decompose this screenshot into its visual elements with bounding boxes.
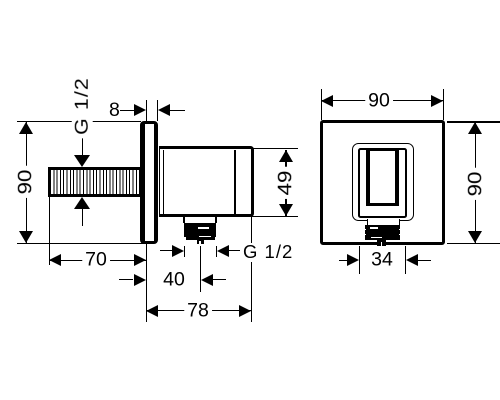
ext line body bottom right	[252, 216, 298, 217]
outlet tip	[197, 240, 204, 244]
dim G 1/2 bottom: left tail	[160, 250, 172, 251]
dim 78: label	[184, 300, 212, 322]
ext line flange top	[17, 121, 141, 122]
thread gleam dash 2	[199, 236, 211, 237]
body inner line 1	[163, 150, 164, 214]
ext line pin left	[49, 196, 50, 265]
thread notch left 2	[365, 234, 366, 236]
dim 90 left: line	[26, 122, 27, 243]
dim 49: line	[285, 150, 286, 216]
thread gleam dash 2 (front)	[371, 237, 382, 238]
elbow body outline	[159, 146, 255, 217]
knurled holder pin	[48, 167, 141, 197]
dim 8: ext line right	[157, 100, 158, 122]
dim 40: left arrow	[134, 274, 146, 286]
dim 90 right: ext line bottom	[447, 243, 500, 244]
dim 90 top: arrow left	[321, 95, 333, 107]
ext line wall plane	[146, 244, 147, 322]
dim 90 top: ext line right	[443, 89, 444, 120]
dim 34: label	[368, 250, 396, 272]
outlet cone	[186, 237, 215, 240]
thread notch left 1	[365, 229, 366, 231]
dim 90 left: bottom arrow	[19, 231, 33, 243]
dim 8: tail left	[120, 110, 134, 111]
dim 90 left: top arrow	[19, 122, 33, 134]
dim 8: arrow right	[134, 104, 146, 116]
outlet thread block	[184, 223, 215, 237]
dim 90 right: line	[475, 122, 476, 243]
dim G 1/2 bottom: left arrow	[172, 245, 184, 257]
pin bottom arrow (up)	[74, 197, 90, 209]
outlet tip slit	[199, 241, 202, 245]
wall plate	[320, 120, 446, 245]
body inner line 2	[234, 150, 236, 214]
G 1/2 top leader line	[82, 133, 83, 155]
ext line flange bottom	[17, 243, 146, 244]
dim G 1/2 bottom: right arrow	[217, 245, 229, 257]
G 1/2 top label (rotated)	[72, 74, 93, 139]
ext line body top right	[252, 148, 298, 149]
dim 90 top: arrow right	[431, 95, 443, 107]
dim 49: arrow down	[279, 204, 293, 216]
dim 70: arrow right	[134, 254, 146, 266]
thread gleam dash 1 (front)	[370, 227, 378, 228]
dim 34: right arrow	[406, 254, 418, 266]
dim G 1/2 bottom: right tail	[229, 250, 240, 251]
dim 34: ext line right	[405, 246, 406, 274]
pin bottom arrow tail	[82, 209, 83, 226]
dim 90 top: line	[322, 100, 444, 101]
dim 34: left tail	[339, 260, 347, 261]
dim 90 top: ext line left	[321, 89, 322, 120]
dim 34: left arrow	[347, 254, 359, 266]
G 1/2 top leader arrow	[74, 155, 90, 167]
holder outer contour	[352, 143, 414, 221]
outlet collar	[183, 217, 216, 223]
outlet thread (front)	[365, 225, 401, 240]
dim 90 left: label	[15, 166, 37, 198]
dim 70: label	[82, 249, 110, 271]
wall flange	[140, 121, 158, 244]
thread notch right 2	[399, 234, 400, 236]
dim 78: line	[146, 310, 251, 311]
holder bracket (U-frame)	[366, 148, 399, 206]
dim 40: left arrow tail	[119, 279, 134, 280]
ext line outlet right	[216, 246, 217, 258]
thread notch right 1	[399, 229, 400, 231]
outlet tip slit (front)	[381, 242, 382, 247]
dim 8: ext line left	[146, 100, 147, 122]
holder inner rim	[358, 148, 407, 219]
ext line body right	[251, 216, 252, 322]
ext line outlet left	[184, 246, 185, 258]
dim 90 top: label	[365, 90, 393, 112]
dim 8: tail right	[170, 110, 185, 111]
dim 8: label	[109, 101, 120, 121]
dim 8: arrow left	[158, 104, 170, 116]
dim 40: label	[160, 269, 188, 291]
dim 90 right: arrow down	[468, 231, 482, 243]
dim 70: line	[49, 260, 146, 261]
dim 34: ext line left	[359, 246, 360, 274]
dim 90 right: arrow up	[468, 122, 482, 134]
dim 40: right arrow tail	[213, 279, 225, 280]
ext line outlet center	[200, 246, 201, 292]
dim 34: right tail	[418, 260, 431, 261]
dim 90 right: ext line top	[447, 121, 500, 122]
dim 78: arrow right	[239, 305, 251, 317]
thread gleam dash 1	[198, 227, 210, 229]
dim G 1/2 bottom: label	[242, 243, 294, 262]
outlet step (front)	[367, 219, 400, 225]
dim 78: arrow left	[146, 305, 158, 317]
dim 40: right arrow	[201, 274, 213, 286]
outlet tip (front)	[377, 240, 386, 246]
dim 90 right: label	[465, 168, 487, 200]
dim 70: arrow left	[49, 254, 61, 266]
dim 49: arrow up	[279, 150, 293, 162]
dim 49: label	[275, 167, 297, 199]
